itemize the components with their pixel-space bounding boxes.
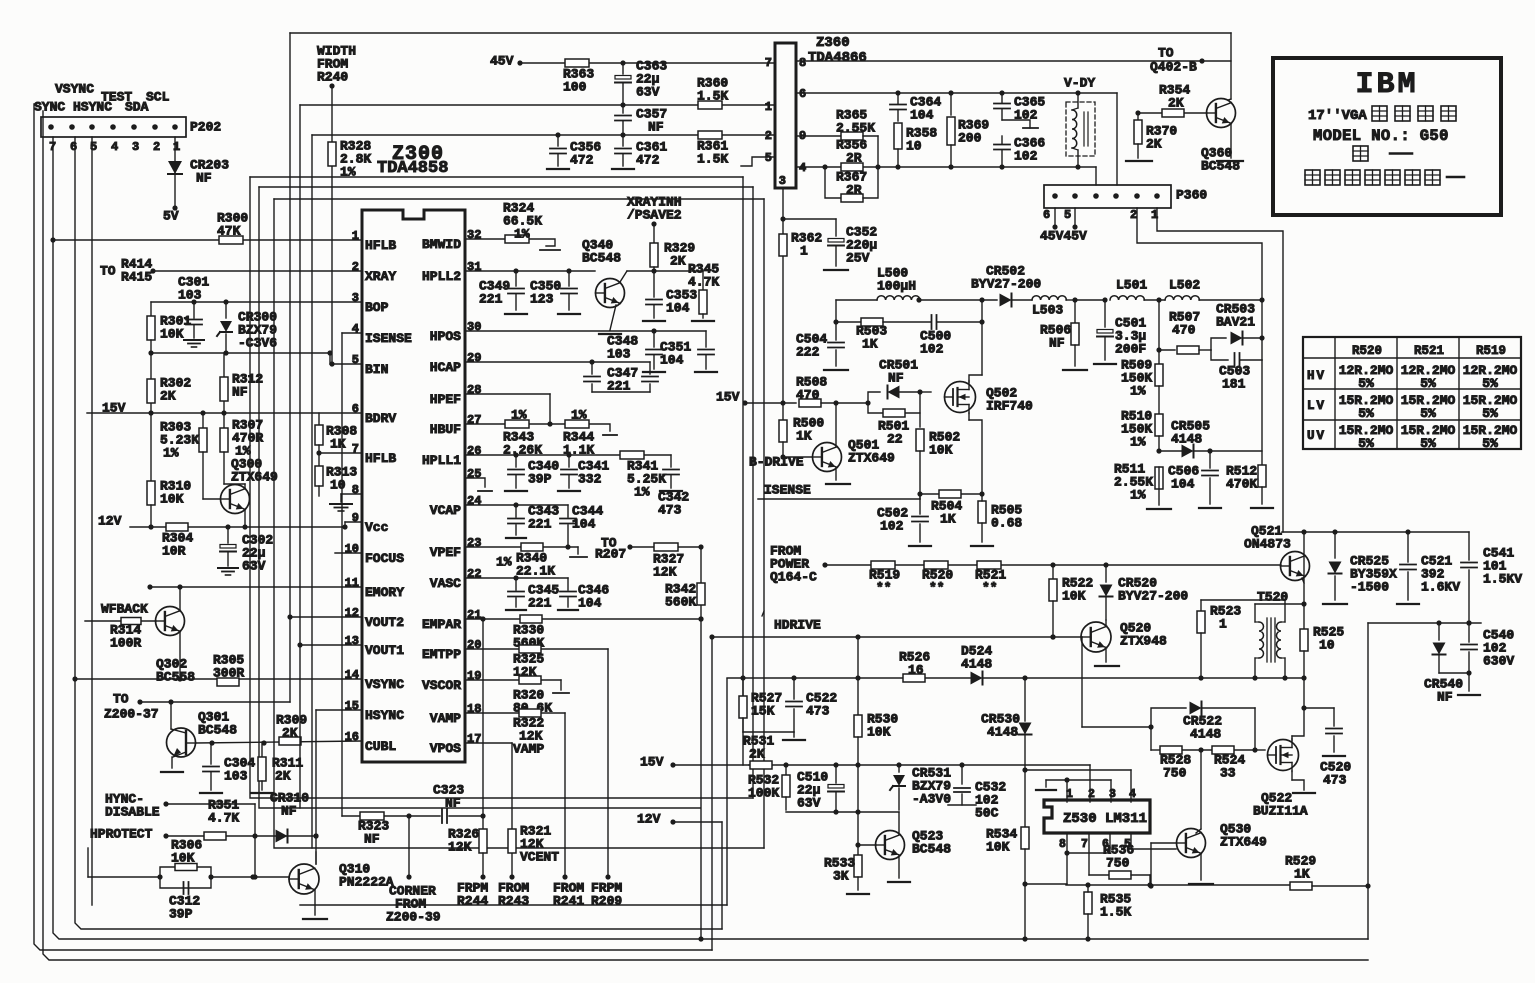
Z300 misc pins stubs: [330, 494, 362, 553]
resistor R500: [779, 403, 824, 460]
wire R207 to R327 net: [630, 544, 704, 549]
wire VSYNC net pin14 with R305: [72, 676, 361, 681]
resistor R344: [563, 408, 594, 458]
comparator Z530 LM311: [1044, 800, 1150, 833]
wire HFLB net: [50, 237, 361, 242]
capacitor C304: [200, 742, 255, 793]
svg-text:BOP: BOP: [365, 300, 389, 315]
IBM title box: [1273, 58, 1501, 215]
resistor R302: [147, 353, 191, 413]
transistor Q360: [1201, 99, 1240, 174]
wire corner from Z200-39: [386, 816, 441, 925]
capacitor C503: [1211, 350, 1262, 392]
svg-text:NF: NF: [232, 385, 248, 400]
svg-text:EMTPP: EMTPP: [422, 647, 461, 662]
label FRPM R244: [457, 881, 488, 909]
svg-text:1K: 1K: [330, 437, 346, 452]
resistor R351: [204, 798, 239, 840]
resistor R326: [448, 827, 487, 877]
capacitor C357: [615, 105, 667, 138]
svg-text:HFLB: HFLB: [365, 451, 396, 466]
svg-text:1.5KV: 1.5KV: [1483, 572, 1522, 587]
svg-text:2K: 2K: [1168, 96, 1184, 111]
svg-text:Q402-B: Q402-B: [1150, 60, 1197, 75]
capacitor C506: [1168, 451, 1221, 508]
capacitor C352 electrolytic: [783, 219, 877, 270]
svg-text:BUZI11A: BUZI11A: [1253, 804, 1308, 819]
resistor R309: [276, 713, 307, 745]
svg-text:332: 332: [578, 472, 602, 487]
svg-text:32: 32: [467, 228, 481, 242]
wire EMTPP net pin20: [465, 649, 611, 880]
svg-text:1%: 1%: [1130, 384, 1146, 399]
svg-text:7: 7: [352, 442, 359, 456]
resistor R530: [854, 712, 898, 765]
svg-text:V-DY: V-DY: [1064, 76, 1095, 91]
svg-text:4148: 4148: [961, 657, 992, 672]
wire P202 pin5 down: [91, 137, 93, 905]
inductor L501: [1110, 278, 1147, 300]
resistor R329: [650, 224, 695, 271]
svg-text:1%: 1%: [496, 555, 512, 570]
wire HBUF net pin27: [465, 424, 617, 435]
resistor R300: [217, 211, 248, 244]
svg-text:R243: R243: [498, 894, 529, 909]
wire TO R414/R415 to pin2: [150, 268, 361, 273]
svg-text:181: 181: [1222, 377, 1246, 392]
node 5V: [163, 205, 179, 223]
transistor Q301: [167, 710, 238, 757]
svg-text:1.5K: 1.5K: [697, 152, 728, 167]
svg-text:5%: 5%: [1420, 436, 1436, 451]
resistor R301: [147, 302, 191, 353]
svg-text:EMPAR: EMPAR: [422, 617, 461, 632]
wire q522 node vertical: [1301, 678, 1306, 711]
P202 signal labels: [34, 82, 170, 115]
svg-text:473: 473: [806, 704, 830, 719]
resistor R343: [503, 408, 542, 458]
resistor R320: [513, 676, 552, 716]
deflection yoke V-DY: [1066, 93, 1095, 167]
resistor R525: [1300, 604, 1344, 681]
svg-text:P202: P202: [190, 120, 221, 135]
wire Q360 collector: [1228, 99, 1231, 100]
wire ISENSE pin4 down to R323: [342, 333, 361, 816]
capacitor C532: [948, 765, 1006, 821]
svg-text:5%: 5%: [1482, 376, 1498, 391]
svg-text:5: 5: [1064, 208, 1071, 222]
svg-text:18: 18: [467, 702, 481, 716]
wire width R240 vertical: [329, 86, 334, 367]
svg-text:L502: L502: [1169, 278, 1200, 293]
svg-text:472: 472: [570, 153, 594, 168]
resistor R322: [513, 709, 544, 757]
svg-text:27: 27: [467, 413, 481, 427]
svg-text:25: 25: [467, 467, 481, 481]
svg-text:560K: 560K: [665, 595, 696, 610]
svg-text:BDRV: BDRV: [365, 411, 396, 426]
wire CR310 node down: [313, 833, 318, 838]
diode D524: [961, 644, 1028, 685]
svg-text:7: 7: [765, 56, 772, 70]
svg-text:15K: 15K: [751, 704, 775, 719]
svg-text:221: 221: [528, 596, 552, 611]
wire Z360 pin6 net: [796, 90, 1117, 185]
capacitor C356: [547, 135, 601, 169]
svg-text:VCAP: VCAP: [430, 503, 461, 518]
svg-text:R241: R241: [553, 894, 584, 909]
wire P202 pin6 down: [75, 137, 722, 929]
svg-text:200: 200: [958, 131, 982, 146]
label FROM R241: [553, 881, 584, 909]
resistor R341: [620, 451, 666, 500]
resistor R535: [1084, 885, 1131, 942]
svg-text:**: **: [982, 581, 998, 596]
wire pin25 stub: [465, 478, 492, 491]
label FROM R243: [498, 881, 529, 909]
svg-text:2: 2: [1130, 208, 1137, 222]
svg-text:22.1K: 22.1K: [516, 564, 555, 579]
svg-text:10: 10: [330, 478, 346, 493]
wire BIN net pin5: [330, 353, 361, 364]
diode CR525: [1323, 532, 1397, 604]
wire VPOS net pin17: [465, 743, 515, 880]
svg-text:SCL: SCL: [146, 90, 170, 105]
svg-text:221: 221: [607, 379, 631, 394]
resistor R510: [1121, 386, 1163, 454]
svg-text:45V: 45V: [490, 54, 514, 69]
svg-text:VSYNC: VSYNC: [365, 677, 404, 692]
svg-text:8: 8: [352, 483, 359, 497]
resistor R321: [508, 824, 559, 865]
svg-text:12V: 12V: [637, 812, 661, 827]
svg-text:ISENSE: ISENSE: [764, 483, 811, 498]
wire P202 pin1 to CR203: [174, 137, 176, 208]
svg-text:1%: 1%: [571, 408, 587, 423]
wire L500 left down: [833, 300, 838, 325]
wire VSCOR net pin19: [465, 680, 569, 693]
wire bus left 2: [43, 111, 1368, 960]
resistor R519: [869, 561, 900, 596]
svg-text:Vcc: Vcc: [365, 520, 389, 535]
wire hv rail top: [1282, 529, 1469, 534]
wire EMORY net pin11: [147, 584, 361, 589]
svg-text:R520: R520: [1352, 344, 1382, 358]
wire R536 step to R529 row: [1066, 875, 1290, 888]
svg-text:10K: 10K: [986, 840, 1010, 855]
svg-text:BIN: BIN: [365, 362, 388, 377]
capacitor C301: [184, 302, 204, 347]
svg-text:630V: 630V: [1483, 654, 1514, 669]
svg-text:NF: NF: [445, 796, 461, 811]
svg-text:R244: R244: [457, 894, 488, 909]
svg-text:P360: P360: [1176, 188, 1207, 203]
svg-text:TO: TO: [100, 264, 116, 279]
svg-text:1%: 1%: [340, 165, 356, 180]
wire VCAP net pin24: [465, 502, 568, 507]
svg-text:25V: 25V: [846, 251, 870, 266]
svg-text:100R: 100R: [110, 636, 141, 651]
resistor R369: [947, 93, 989, 167]
connector P360: [1043, 185, 1207, 222]
op-amp Z360 TDA4866: [775, 35, 867, 188]
svg-text:2: 2: [1088, 788, 1095, 801]
svg-text:102: 102: [880, 519, 904, 534]
svg-text:6: 6: [352, 402, 359, 416]
svg-text:9: 9: [352, 511, 359, 525]
svg-text:10K: 10K: [1062, 589, 1086, 604]
wire rail to L501: [1075, 299, 1105, 301]
svg-text:63V: 63V: [636, 85, 660, 100]
svg-text:470K: 470K: [1226, 477, 1257, 492]
svg-text:HSYNC: HSYNC: [73, 100, 112, 115]
svg-text:300R: 300R: [213, 666, 244, 681]
wire VPEF net pin23: [465, 547, 587, 557]
svg-text:TO: TO: [1158, 46, 1174, 61]
wire R504 row: [920, 493, 982, 495]
svg-text:SYNC: SYNC: [34, 100, 65, 115]
wire EMPAR net pin21: [465, 616, 704, 621]
resistor R522: [1049, 565, 1093, 640]
svg-text:28: 28: [467, 383, 481, 397]
wire R530 vertical: [857, 637, 859, 715]
svg-text:103: 103: [178, 288, 202, 303]
resistor R306 and capacitor C312 parallel: [88, 838, 214, 922]
wire R526 rail y678: [727, 675, 971, 680]
label TO R414 R415: [100, 257, 152, 285]
zener CR300: [217, 302, 277, 353]
svg-text:15: 15: [345, 699, 359, 713]
svg-text:16: 16: [908, 663, 924, 678]
connector P202: [41, 117, 221, 154]
svg-text:15V: 15V: [102, 401, 126, 416]
svg-text:Q164-C: Q164-C: [770, 570, 817, 585]
wire r527 c522 gnd: [743, 732, 805, 740]
wire q523 gnd: [888, 856, 910, 882]
capacitor C349: [479, 271, 527, 314]
svg-text:6: 6: [70, 140, 77, 154]
wire net to Z360 pin2: [312, 132, 775, 848]
svg-text:L503: L503: [1032, 303, 1063, 318]
label FROM POWER Q164-C: [770, 544, 828, 585]
wire Q521 vertical: [1301, 532, 1306, 607]
node 12V mid: [637, 812, 676, 827]
wire BOP net pin3: [151, 299, 361, 304]
label V-DY: [1064, 76, 1095, 91]
svg-text:ZTX649: ZTX649: [1220, 835, 1267, 850]
svg-text:2K: 2K: [670, 254, 686, 269]
resistor R504: [931, 490, 962, 527]
wire P360 45V pins: [1040, 208, 1087, 244]
svg-text:2R: 2R: [846, 151, 862, 166]
svg-text:4148: 4148: [1171, 432, 1202, 447]
wire Q302 emitter to pin14: [177, 631, 182, 682]
svg-text:2R: 2R: [846, 183, 862, 198]
svg-text:NF: NF: [888, 371, 904, 386]
svg-text:2: 2: [153, 140, 160, 154]
resistor R534: [986, 827, 1029, 942]
svg-text:2: 2: [765, 129, 772, 143]
wire Q360 emitter gnd: [1217, 124, 1243, 161]
svg-text:BYV27-200: BYV27-200: [1118, 589, 1188, 604]
wire 15V to R508: [745, 402, 796, 404]
svg-text:3: 3: [352, 291, 359, 305]
transistor Q521: [1244, 524, 1310, 581]
svg-text:NF: NF: [196, 171, 212, 186]
zener CR531: [890, 765, 951, 810]
wire Q300 collector emitter: [224, 484, 248, 530]
wire EMPAR down to C323: [482, 619, 484, 816]
capacitor C502: [877, 494, 931, 546]
svg-text:1: 1: [1219, 617, 1227, 632]
wire 15V mid rail: [673, 764, 749, 766]
wire Q310 emitter gnd: [303, 890, 327, 919]
transformer T520: [1255, 604, 1304, 681]
wire Z360 pin4 net: [796, 164, 1096, 185]
wire loop bottom q310: [300, 904, 727, 906]
wire from power rail: [825, 562, 1281, 567]
capacitor C351: [660, 331, 717, 372]
wire hync-disable: [166, 804, 258, 880]
svg-text:SDA: SDA: [125, 100, 149, 115]
resistor R526: [899, 650, 930, 682]
wire VASC net pin22: [465, 575, 568, 580]
resistor R501: [878, 409, 909, 447]
svg-text:104: 104: [572, 517, 596, 532]
Z360 pin labels: [765, 56, 806, 188]
svg-text:BC548: BC548: [582, 251, 621, 266]
svg-text:VAMP: VAMP: [513, 742, 544, 757]
svg-text:5%: 5%: [1358, 376, 1374, 391]
capacitor C366: [994, 136, 1045, 167]
svg-text:XRAY: XRAY: [365, 269, 396, 284]
wire y623 rail: [1368, 620, 1481, 625]
wire CUBL net pin16: [196, 740, 361, 745]
svg-text:T520: T520: [1257, 590, 1288, 605]
label C301: [178, 275, 209, 303]
svg-text:R415: R415: [121, 270, 152, 285]
svg-text:4.7K: 4.7K: [688, 275, 719, 290]
diode CR520: [1100, 565, 1189, 620]
svg-text:5%: 5%: [1358, 436, 1374, 451]
svg-text:Z200-37: Z200-37: [104, 707, 159, 722]
label TO R207: [595, 536, 633, 562]
capacitor C353: [643, 271, 697, 321]
resistor R505: [971, 494, 1022, 546]
capacitor C323: [433, 783, 464, 823]
wire Z360 pin8 to Q402-B: [796, 58, 1231, 63]
wire 15V rail left: [87, 401, 361, 416]
resistor R354: [1135, 83, 1207, 117]
svg-text:10R: 10R: [162, 544, 186, 559]
svg-text:5: 5: [765, 151, 772, 165]
svg-text:750: 750: [1163, 766, 1187, 781]
wire loop2: [259, 187, 753, 808]
wire C323 node down R326: [480, 816, 485, 880]
svg-text:MODEL NO.: G50: MODEL NO.: G50: [1313, 127, 1449, 145]
label C347: [607, 366, 638, 394]
capacitor C345: [506, 578, 559, 611]
wire Q310 collector: [315, 852, 317, 864]
svg-text:VCENT: VCENT: [520, 850, 559, 865]
svg-text:2: 2: [352, 260, 359, 274]
svg-text:12K: 12K: [653, 565, 677, 580]
svg-text:NF: NF: [364, 832, 380, 847]
transistor Q530: [1177, 822, 1268, 858]
svg-text:21: 21: [467, 608, 481, 622]
resistor R325: [513, 645, 544, 680]
resistor R342: [665, 582, 705, 610]
svg-text:12K: 12K: [448, 840, 472, 855]
wire R342 vertical: [698, 547, 703, 622]
resistor R367: [825, 167, 878, 202]
resistor R308: [315, 413, 357, 456]
diode CR530: [981, 712, 1032, 740]
svg-text:TDA4858: TDA4858: [377, 159, 448, 178]
wire Q301 emitter gnd: [161, 757, 183, 772]
svg-text:5%: 5%: [1420, 406, 1436, 421]
svg-text:2K: 2K: [282, 726, 298, 741]
capacitor C342: [658, 455, 689, 518]
resistor R502: [916, 429, 960, 499]
capacitor C504: [796, 322, 848, 370]
resistor R520: [922, 561, 953, 596]
svg-text:5V: 5V: [163, 209, 179, 224]
wire Q530 base from R536: [1148, 843, 1176, 889]
Z530 pin numbers: [1059, 788, 1136, 851]
svg-text:8: 8: [1059, 838, 1066, 851]
svg-text:1%: 1%: [1130, 488, 1146, 503]
transistor Q502 mosfet: [945, 381, 1034, 414]
svg-text:5: 5: [90, 140, 97, 154]
svg-text:102: 102: [1014, 108, 1038, 123]
wire Q302 collector to pin11: [177, 584, 182, 611]
wire Z360 pin3 down: [780, 188, 785, 222]
resistor R327: [653, 543, 684, 580]
wire to Q310 base: [211, 874, 289, 879]
wire Q520 collector: [1105, 620, 1107, 626]
svg-text:1%: 1%: [163, 446, 179, 461]
resistor R531: [743, 734, 774, 769]
resistor R509: [1121, 350, 1163, 399]
svg-text:2K: 2K: [275, 769, 291, 784]
svg-text:BC548: BC548: [198, 723, 237, 738]
capacitor C344: [560, 504, 603, 550]
svg-text:HBUF: HBUF: [430, 422, 461, 437]
svg-text:20: 20: [467, 638, 481, 652]
Z300 right pin labels: [422, 228, 481, 756]
resistor R311: [251, 742, 303, 793]
svg-text:750: 750: [1106, 856, 1130, 871]
svg-text:102: 102: [1014, 149, 1038, 164]
svg-text:**: **: [929, 581, 945, 596]
resistor R330: [513, 615, 544, 651]
svg-text:Z530 LM311: Z530 LM311: [1063, 811, 1147, 827]
svg-text:29: 29: [467, 351, 481, 365]
svg-text:VASC: VASC: [430, 576, 461, 591]
svg-text:104: 104: [578, 596, 602, 611]
wire HPLL2 net pin31: [465, 268, 595, 273]
wire P360 pin2 down-right: [1137, 208, 1265, 303]
svg-text:470: 470: [1172, 323, 1196, 338]
svg-text:1%: 1%: [634, 485, 650, 500]
svg-text:2K: 2K: [160, 389, 176, 404]
svg-text:1.6KV: 1.6KV: [1421, 580, 1460, 595]
resistor R363: [563, 59, 594, 95]
resistor R328: [328, 139, 371, 180]
resistor R536: [1089, 843, 1150, 879]
label HDRIVE: [762, 611, 821, 633]
